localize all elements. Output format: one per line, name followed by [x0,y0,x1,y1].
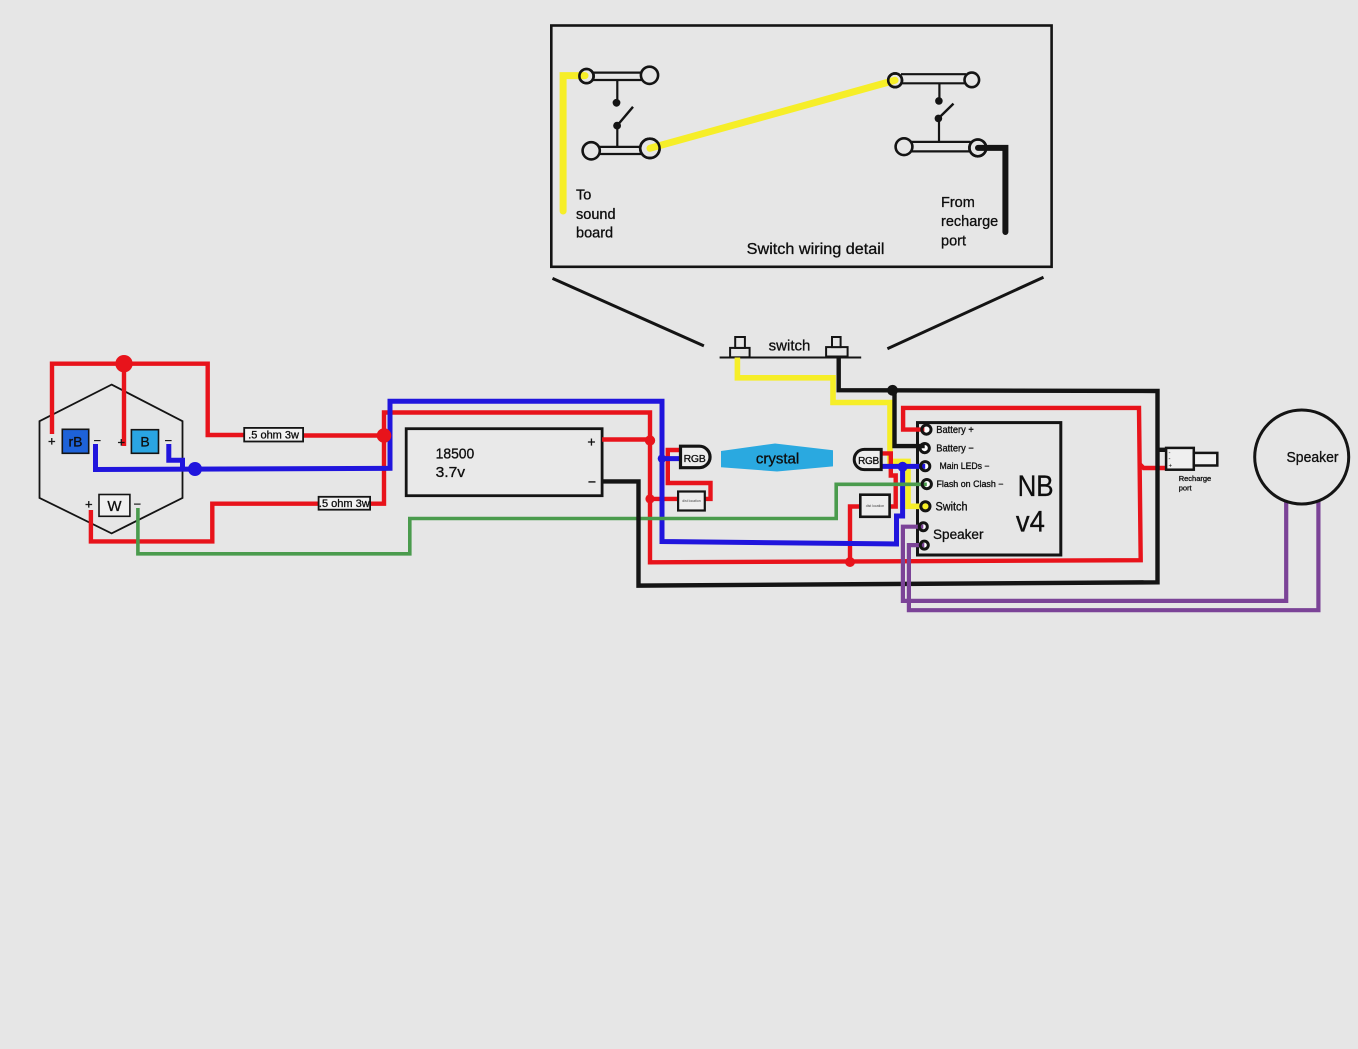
svg-text:Speaker: Speaker [933,527,984,542]
svg-text:3.7v: 3.7v [436,464,466,481]
crystal [721,444,833,472]
speaker [1255,410,1349,504]
svg-text:−: − [134,497,142,512]
wire yellow jumper between switches [650,80,895,148]
detail switch SW-A (left) [579,67,659,160]
svg-text:crystal: crystal [756,451,799,468]
wire black switch to recharge port and battery minus loop [602,358,1157,586]
wire blue main LED negative rail [96,401,903,544]
NB board pads [921,502,930,511]
recharge port [1166,448,1217,470]
wire purple speaker pad 1 [903,500,1286,601]
wire red battery plus stub [602,437,650,441]
svg-text:W: W [107,498,122,515]
svg-text:−: − [94,433,102,448]
node blue RGB2 [898,462,908,472]
resistor R2 .5 ohm 3w [319,497,371,510]
svg-text:−: − [165,433,173,448]
svg-text:port: port [1179,484,1193,493]
wire red to recharge port plus [1140,464,1166,468]
pad bases [918,424,932,550]
wire red to B+ [122,364,126,446]
svg-text:board: board [576,226,613,242]
svg-text:−: − [588,474,596,490]
svg-text:-: - [1169,457,1171,463]
svg-text:Battery +: Battery + [936,425,974,436]
svg-text:+: + [118,435,126,450]
node red box1 tap [645,494,654,503]
label From recharge port [941,195,998,250]
svg-text:B: B [140,434,149,450]
svg-text:Flash on Clash −: Flash on Clash − [937,479,1004,489]
svg-text:Speaker: Speaker [1287,450,1339,466]
svg-text:Switch wiring detail: Switch wiring detail [747,241,885,258]
label Recharge port [1179,474,1212,493]
svg-text:NB: NB [1018,470,1054,503]
svg-text:.5 ohm 3w: .5 ohm 3w [319,498,370,510]
svg-text:rB: rB [69,434,83,450]
wire blue RGB2 to Main LEDs pad [877,464,925,469]
svg-text:port: port [941,234,966,250]
wire red resistor2 to node [366,436,384,504]
svg-text:Main LEDs −: Main LEDs − [940,461,990,471]
MAIN: switch assembly [720,337,862,358]
svg-text:Battery −: Battery − [936,444,974,455]
wire black to recharge port minus [1158,448,1167,452]
wire green W minus to Flash on Clash pad [138,484,927,554]
svg-text:recharge: recharge [941,214,998,230]
wire red node to battery node [384,413,650,441]
node black switch junction [887,385,898,396]
resistor box 2 (crystal LED) [860,495,889,517]
pointer line right [887,277,1043,349]
svg-text:18500: 18500 [436,446,475,463]
svg-text:RGB: RGB [684,453,706,465]
NB v4 soundboard outline [918,423,1061,555]
wire red hexagon top rail [52,364,250,435]
battery 18500 [406,429,602,496]
wire red main loop to Battery plus pad [650,408,1141,562]
node blue hexagon [188,462,202,476]
svg-text:+: + [85,497,93,512]
RGB LED 2 [854,449,881,469]
svg-text:+: + [48,434,56,449]
svg-text:RGB: RGB [858,456,879,467]
svg-text:.5 ohm 3w: .5 ohm 3w [248,430,299,442]
RGB LED 1 [681,446,711,468]
wire black from recharge port [978,148,1005,232]
svg-text:Recharge: Recharge [1179,474,1212,483]
detail switch SW-B (right) [888,73,986,157]
node red resistor join [377,428,392,443]
LED die rB [62,429,88,453]
svg-text:sound: sound [576,207,616,223]
resistor R1 .5 ohm 3w [244,428,303,442]
resistor box 1 (crystal LED) [678,492,705,511]
wire yellow to sound board [563,76,585,211]
INSET: switch wiring detail box [551,26,1051,267]
wire red W+ to resistor2 [91,504,322,542]
pointer line left [553,278,704,346]
node red battery plus [645,435,655,445]
LED module hexagon [40,385,183,534]
svg-text:Switch: Switch [936,501,968,513]
svg-text:dist location: dist location [682,499,701,503]
wire red branch resistor box 1 [650,497,700,501]
node blue RGB1 [658,454,666,462]
wire black junction to Battery minus pad [895,391,925,447]
node red box2 tap [845,557,855,567]
svg-text:To: To [576,188,591,204]
ring redraws over wire ends [579,69,593,83]
svg-text:switch: switch [769,338,811,355]
wire blue RGB1 branch [662,456,685,461]
wire purple speaker pad 2 [909,500,1319,610]
svg-text:From: From [941,195,975,211]
wire yellow switch to Switch pad [737,358,925,507]
svg-text:v4: v4 [1016,506,1045,539]
svg-text:dist location: dist location [866,504,885,508]
wire red box2 to RGB2 [877,453,896,506]
svg-text:+: + [1169,464,1173,470]
wire red resistor1 to node [300,433,384,437]
wire red branch resistor box 2 [850,507,865,563]
svg-text:+: + [587,434,595,450]
wire blue B minus branch [169,444,183,469]
LED die W [99,495,130,517]
wire red box1 to RGB1 [668,450,711,499]
LED die B [131,430,158,454]
label To sound board [576,188,616,242]
polarity labels [48,433,172,512]
node red hexagon top [115,355,132,372]
NB board labels [933,425,1054,542]
